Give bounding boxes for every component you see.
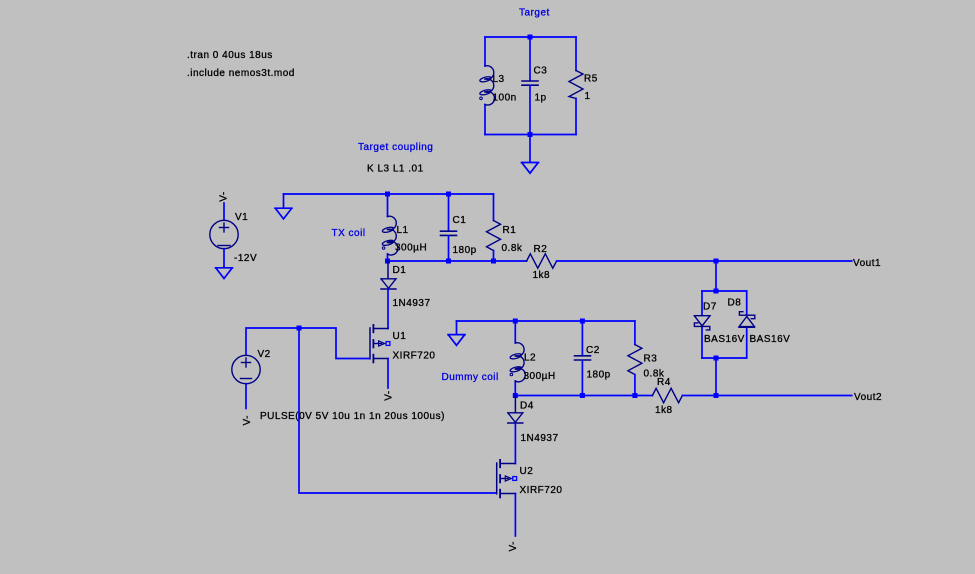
svg-text:1k8: 1k8	[655, 405, 673, 416]
wire Vout1 rail	[557, 260, 852, 262]
net label V- below U1	[384, 390, 395, 400]
wire dummy top rail	[457, 320, 635, 322]
svg-text:L2: L2	[524, 353, 536, 364]
label Target coupling	[358, 142, 433, 153]
wire D1 to U1 drain	[387, 290, 389, 329]
wire TX ground stem	[283, 194, 285, 208]
svg-text:XIRF720: XIRF720	[393, 351, 436, 362]
wire V1 bottom	[223, 249, 225, 268]
inductor L1	[382, 216, 427, 255]
voltage source V1	[210, 212, 257, 264]
wire D7 branch	[701, 291, 703, 358]
label TX coil	[332, 228, 366, 239]
wire D4 to U2 drain	[514, 424, 516, 464]
svg-text:L3: L3	[493, 74, 505, 85]
wire D8 branch	[746, 291, 748, 358]
node junction Vout2 branch	[714, 393, 719, 398]
svg-text:Target coupling: Target coupling	[358, 142, 433, 153]
inductor L2	[510, 343, 556, 382]
wire clamp to Vout2	[715, 358, 717, 396]
svg-text:C1: C1	[453, 215, 467, 226]
node junction gate net	[297, 326, 302, 331]
svg-text:V-: V-	[219, 191, 230, 201]
node junction target bottom	[528, 132, 533, 137]
node junction clamp top	[714, 289, 719, 294]
svg-text:D7: D7	[703, 302, 717, 313]
svg-text:.tran 0 40us 18us: .tran 0 40us 18us	[187, 50, 273, 61]
svg-text:180p: 180p	[587, 370, 611, 381]
voltage source V2	[232, 349, 445, 422]
svg-text:D4: D4	[520, 401, 534, 412]
capacitor C1	[441, 194, 477, 261]
spice directive .include	[187, 68, 295, 79]
node junction L1 top	[385, 192, 390, 197]
svg-text:XIRF720: XIRF720	[520, 485, 563, 496]
wire TX bottom rail	[388, 260, 527, 262]
svg-text:R4: R4	[657, 377, 671, 388]
wire L1 stubs	[387, 194, 389, 261]
spice directive K coupling	[367, 163, 424, 174]
svg-text:100n: 100n	[493, 93, 517, 104]
wire target ground stem	[529, 135, 531, 163]
svg-text:V-: V-	[508, 541, 519, 551]
label Vout1	[853, 258, 881, 269]
wire clamp box top	[702, 290, 747, 292]
svg-text:C3: C3	[534, 66, 548, 77]
svg-text:Vout1: Vout1	[853, 258, 881, 269]
wire L2 stubs	[514, 321, 516, 396]
ground dummy rail	[448, 335, 465, 346]
transistor U2	[497, 460, 563, 498]
node junction C1 bottom	[446, 259, 451, 264]
wire dummy bottom rail	[515, 395, 652, 397]
inductor L3	[479, 66, 516, 105]
diode D7	[694, 302, 745, 346]
svg-text:D8: D8	[728, 298, 742, 309]
wire V2 bottom	[245, 384, 247, 409]
svg-text:300µH: 300µH	[524, 371, 556, 382]
node junction L1 bottom	[385, 259, 390, 264]
diode D8	[728, 298, 791, 346]
svg-text:1k8: 1k8	[533, 270, 551, 281]
svg-text:TX coil: TX coil	[332, 228, 366, 239]
svg-text:V1: V1	[235, 212, 248, 223]
label Dummy coil	[442, 372, 499, 383]
diode D1	[381, 261, 431, 309]
svg-text:300µH: 300µH	[395, 243, 427, 254]
node junction L2 bottom	[513, 393, 518, 398]
wire gate net down to U2	[299, 328, 496, 493]
node junction R3 bottom	[632, 393, 637, 398]
svg-text:BAS16V: BAS16V	[750, 334, 791, 345]
svg-text:1N4937: 1N4937	[393, 298, 431, 309]
svg-text:R2: R2	[534, 244, 548, 255]
wire V1 top	[223, 203, 225, 220]
net label V- above V1	[219, 191, 230, 201]
node junction C2 top	[580, 319, 585, 324]
svg-text:0.8k: 0.8k	[502, 243, 523, 254]
svg-text:-12V: -12V	[234, 253, 257, 264]
svg-text:R1: R1	[503, 225, 517, 236]
node junction C2 bottom	[580, 393, 585, 398]
svg-text:.include nemos3t.mod: .include nemos3t.mod	[187, 68, 295, 79]
wire target left stubs	[484, 37, 486, 135]
label Target	[519, 8, 550, 19]
wire clamp box bottom	[702, 357, 747, 359]
label Vout2	[854, 392, 882, 403]
svg-text:K L3 L1 .01: K L3 L1 .01	[367, 163, 424, 174]
net label V- below U2	[508, 541, 519, 551]
svg-text:1: 1	[585, 91, 591, 102]
wire Vout1 to clamp box	[715, 261, 717, 291]
ground V1	[216, 268, 233, 279]
capacitor C2	[575, 321, 611, 396]
wire Vout2 rail	[682, 395, 851, 397]
svg-text:Target: Target	[519, 8, 550, 19]
node junction Vout1 branch	[714, 259, 719, 264]
spice directive .tran	[187, 50, 273, 61]
node junction C1 top	[446, 192, 451, 197]
node junction clamp bottom	[714, 356, 719, 361]
transistor U1	[370, 325, 435, 363]
node junction target top	[528, 35, 533, 40]
net label V- below V2	[242, 415, 253, 425]
svg-text:Vout2: Vout2	[854, 392, 882, 403]
ground target	[522, 163, 539, 174]
wire V2 top to gate	[246, 328, 369, 359]
wire U1 source down	[387, 359, 389, 389]
svg-text:V-: V-	[384, 390, 395, 400]
node junction R1 bottom	[491, 259, 496, 264]
resistor R3	[628, 321, 665, 396]
wire U2 source down	[514, 494, 516, 537]
svg-text:D1: D1	[393, 265, 407, 276]
wire target top	[485, 36, 576, 38]
resistor R4	[652, 377, 682, 416]
svg-text:180p: 180p	[453, 245, 477, 256]
resistor R5	[569, 37, 598, 135]
node junction L2 top	[513, 319, 518, 324]
svg-text:C2: C2	[586, 345, 600, 356]
svg-text:R3: R3	[644, 354, 658, 365]
resistor R1	[487, 194, 523, 261]
svg-text:R5: R5	[584, 74, 598, 85]
svg-text:1p: 1p	[535, 93, 547, 104]
wire dummy ground stem	[456, 321, 458, 334]
ground TX rail	[275, 208, 292, 219]
diode D4	[508, 396, 559, 445]
svg-text:L1: L1	[397, 225, 409, 236]
wire target bottom	[485, 134, 576, 136]
svg-text:BAS16V: BAS16V	[704, 334, 745, 345]
svg-text:V-: V-	[242, 415, 253, 425]
svg-text:1N4937: 1N4937	[521, 433, 559, 444]
wire TX top rail	[284, 193, 494, 195]
resistor R2	[527, 244, 557, 281]
svg-text:U1: U1	[393, 331, 407, 342]
capacitor C3	[522, 37, 547, 135]
svg-text:U2: U2	[520, 466, 534, 477]
svg-text:PULSE(0V 5V 10u 1n 1n 20us 100: PULSE(0V 5V 10u 1n 1n 20us 100us)	[260, 411, 445, 422]
svg-text:V2: V2	[258, 349, 271, 360]
svg-text:Dummy coil: Dummy coil	[442, 372, 499, 383]
